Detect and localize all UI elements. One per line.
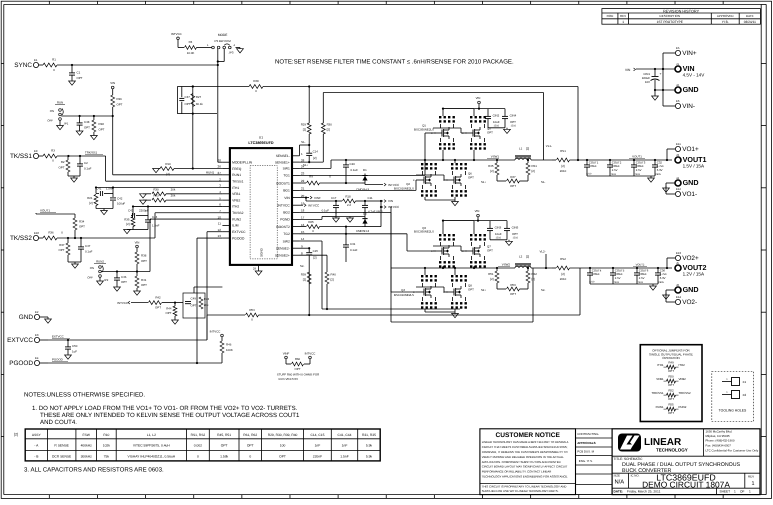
svg-text:R35: R35 bbox=[124, 218, 130, 222]
diode D2 CMDSH-3 bbox=[364, 217, 366, 227]
svg-text:C14, C15: C14, C15 bbox=[310, 433, 324, 437]
svg-text:1uF: 1uF bbox=[72, 350, 77, 354]
svg-text:R41: R41 bbox=[141, 278, 147, 282]
svg-text:VL2-: VL2- bbox=[540, 250, 546, 254]
capacitor C47 0.1uF bbox=[80, 238, 82, 247]
svg-text:400kHz: 400kHz bbox=[81, 444, 93, 448]
terminal J2 GND bbox=[675, 87, 681, 93]
svg-text:OPT: OPT bbox=[668, 397, 674, 401]
svg-text:OF: OF bbox=[740, 490, 744, 494]
svg-text:R10: R10 bbox=[165, 162, 171, 166]
wire Q1 Q5 drain bbox=[442, 109, 444, 116]
svg-text:1210: 1210 bbox=[589, 281, 595, 284]
svg-text:[2]: [2] bbox=[331, 278, 334, 282]
IC pin 12 EXTVCC bbox=[222, 231, 230, 233]
svg-text:R37: R37 bbox=[59, 243, 65, 247]
svg-text:C42: C42 bbox=[117, 197, 123, 201]
resistor R38 OPT bbox=[135, 252, 139, 264]
svg-text:J2: J2 bbox=[676, 83, 679, 87]
svg-text:BG2: BG2 bbox=[283, 211, 290, 215]
wire VSW2 bbox=[391, 267, 515, 269]
wire TG1 net bbox=[300, 174, 426, 176]
svg-text:1: 1 bbox=[622, 20, 624, 24]
svg-text:RUN2: RUN2 bbox=[96, 260, 104, 264]
svg-text:C41: C41 bbox=[96, 187, 102, 191]
svg-text:ITH1: ITH1 bbox=[232, 186, 239, 190]
wire VSW1 bbox=[331, 159, 515, 161]
terminal J1 VIN bbox=[675, 66, 681, 72]
svg-text:VINF: VINF bbox=[283, 352, 290, 356]
terminal E6 VIN- bbox=[675, 103, 680, 108]
svg-text:OPT: OPT bbox=[77, 76, 83, 80]
resistor R39 [2] bbox=[307, 272, 311, 284]
svg-text:CIN3: CIN3 bbox=[495, 225, 502, 229]
ground at J6 bbox=[665, 293, 667, 295]
svg-text:VFB2: VFB2 bbox=[679, 377, 687, 381]
wire PGND pin bbox=[300, 218, 323, 220]
capacitor COUT1 100uF bbox=[586, 159, 588, 161]
svg-text:100uF: 100uF bbox=[117, 202, 125, 206]
IC pin 10 RUN2 bbox=[222, 218, 230, 220]
svg-text:2010: 2010 bbox=[560, 169, 567, 173]
svg-text:OPT: OPT bbox=[84, 126, 90, 130]
svg-text:75k: 75k bbox=[104, 455, 110, 459]
svg-text:APPROVED: APPROVED bbox=[717, 14, 735, 18]
svg-text:OPT: OPT bbox=[510, 120, 516, 124]
svg-text:INTVCC: INTVCC bbox=[308, 203, 320, 207]
svg-text:VIN-: VIN- bbox=[682, 103, 695, 110]
resistor R33 20k bbox=[142, 199, 144, 201]
svg-text:E12: E12 bbox=[676, 187, 681, 191]
svg-text:0805: 0805 bbox=[656, 173, 662, 176]
wire VIN- to E6 bbox=[663, 105, 675, 107]
svg-text:1nF: 1nF bbox=[315, 444, 321, 448]
svg-text:OPT: OPT bbox=[79, 225, 85, 229]
svg-text:E5: E5 bbox=[676, 46, 680, 50]
svg-text:E11: E11 bbox=[676, 142, 681, 146]
svg-text:EXTVCC: EXTVCC bbox=[232, 230, 246, 234]
svg-text:R27: R27 bbox=[196, 95, 202, 99]
svg-text:PCB DUS. M: PCB DUS. M bbox=[577, 449, 594, 453]
resistor R25 0 bbox=[300, 226, 307, 228]
svg-text:INTVCC: INTVCC bbox=[305, 352, 316, 356]
svg-text:S2-: S2- bbox=[300, 264, 304, 268]
svg-text:[2]: [2] bbox=[89, 201, 92, 205]
svg-text:J6: J6 bbox=[676, 283, 679, 287]
IC pin 16 BOOST2 bbox=[292, 226, 300, 228]
svg-text:VOUT1: VOUT1 bbox=[632, 155, 642, 159]
svg-text:C47: C47 bbox=[85, 244, 91, 248]
svg-text:VOUT2: VOUT2 bbox=[636, 264, 645, 267]
resistor R41 OPT bbox=[136, 272, 138, 277]
svg-text:3. ALL CAPACITORS AND RESISTO: 3. ALL CAPACITORS AND RESISTORS ARE 0603… bbox=[24, 467, 164, 474]
resistor R18 2.2 bbox=[343, 199, 356, 203]
svg-text:1630 McCarthy Blvd.: 1630 McCarthy Blvd. bbox=[706, 430, 733, 434]
IC pin 20 VIN bbox=[292, 197, 300, 199]
svg-text:0.002: 0.002 bbox=[194, 444, 202, 448]
svg-text:REV: REV bbox=[620, 14, 626, 18]
svg-text:CMDSH-3: CMDSH-3 bbox=[356, 229, 370, 233]
svg-text:GND: GND bbox=[683, 178, 699, 187]
svg-text:10uF: 10uF bbox=[493, 120, 500, 124]
svg-text:C11: C11 bbox=[368, 196, 373, 200]
svg-text:R40: R40 bbox=[331, 273, 337, 277]
svg-text:1: 1 bbox=[749, 490, 751, 494]
svg-text:R39: R39 bbox=[301, 273, 307, 277]
svg-text:C50: C50 bbox=[72, 344, 78, 348]
svg-text:VIN: VIN bbox=[476, 96, 481, 100]
svg-text:INTVCC: INTVCC bbox=[388, 205, 400, 209]
resistor R30 20k bbox=[142, 193, 144, 195]
svg-text:OFF: OFF bbox=[47, 119, 53, 123]
capacitor COUT4 100uF bbox=[589, 267, 591, 269]
svg-text:20k: 20k bbox=[171, 194, 176, 198]
resistor R62 [2] bbox=[527, 268, 529, 271]
svg-text:SENSE1+: SENSE1+ bbox=[275, 160, 290, 164]
svg-text:S2-: S2- bbox=[541, 288, 545, 292]
IC pin 14 SW2 bbox=[292, 240, 300, 242]
svg-text:INTVCC: INTVCC bbox=[117, 301, 128, 305]
svg-text:R38: R38 bbox=[141, 254, 147, 258]
svg-text:0805: 0805 bbox=[659, 281, 665, 284]
capacitor C1 OPT bbox=[71, 65, 73, 73]
svg-text:OPT: OPT bbox=[141, 259, 147, 263]
svg-text:R61, R62: R61, R62 bbox=[243, 433, 257, 437]
transistor Q5 OPT bbox=[470, 116, 472, 118]
transistor Q7 OPT bbox=[470, 234, 472, 236]
svg-text:ON: ON bbox=[50, 109, 54, 113]
terminal E4 PGOOD bbox=[34, 360, 39, 365]
terminal J5 VOUT2 bbox=[675, 265, 681, 271]
resistor R42 OPT bbox=[131, 302, 148, 304]
svg-text:OPT: OPT bbox=[468, 176, 474, 180]
svg-text:220nF: 220nF bbox=[313, 455, 322, 459]
svg-text:R31, R35: R31, R35 bbox=[362, 433, 376, 437]
svg-text:1nF: 1nF bbox=[342, 444, 348, 448]
terminal E3 EXTVCC bbox=[34, 337, 39, 342]
svg-text:OPT: OPT bbox=[295, 367, 301, 371]
svg-text:OPT: OPT bbox=[510, 292, 516, 296]
svg-text:S1-: S1- bbox=[541, 180, 545, 184]
svg-text:D1: D1 bbox=[363, 168, 367, 172]
IC pin 2 TK/SS1 bbox=[222, 180, 230, 182]
svg-text:ROD: ROD bbox=[607, 14, 615, 18]
IC pin 4 VFB1 bbox=[222, 193, 230, 195]
tooling hole X2 bbox=[722, 394, 732, 396]
svg-text:EXTVCC: EXTVCC bbox=[7, 337, 33, 344]
svg-text:DATE:: DATE: bbox=[614, 490, 624, 494]
svg-text:ENG. YI S.: ENG. YI S. bbox=[579, 459, 593, 463]
svg-text:E9: E9 bbox=[34, 149, 38, 153]
svg-text:OPT: OPT bbox=[668, 369, 674, 373]
svg-text:VIN+: VIN+ bbox=[682, 50, 697, 57]
wire PGOOD bbox=[40, 362, 48, 364]
svg-text:OPT: OPT bbox=[99, 128, 105, 132]
svg-text:C49: C49 bbox=[191, 297, 197, 301]
capacitor C20 0.1uF bbox=[345, 160, 347, 165]
svg-text:1.58k: 1.58k bbox=[220, 455, 228, 459]
terminal E1 SYNC bbox=[33, 62, 38, 67]
svg-text:S1+: S1+ bbox=[481, 180, 486, 184]
IC pin 11 ILIM bbox=[222, 224, 230, 226]
svg-text:TG2: TG2 bbox=[283, 232, 290, 236]
terminal E2 GND bbox=[34, 314, 39, 319]
svg-text:J4: J4 bbox=[676, 176, 679, 180]
svg-text:R3: R3 bbox=[51, 149, 55, 153]
svg-text:THESE ARE ONLY INTENDED TO KEL: THESE ARE ONLY INTENDED TO KELVIN SENSE … bbox=[40, 412, 300, 419]
svg-text:TK/SS1: TK/SS1 bbox=[232, 179, 244, 183]
svg-text:20k: 20k bbox=[171, 187, 176, 191]
svg-text:100K: 100K bbox=[226, 348, 233, 352]
IC pin 1 SENSE1- bbox=[292, 155, 300, 157]
ground at JP3 bbox=[236, 47, 241, 49]
assembly options table bbox=[25, 429, 380, 461]
svg-text:OPT: OPT bbox=[166, 311, 172, 315]
transistor Q8 OPT bbox=[451, 275, 453, 277]
svg-text:BSC050NE2LS: BSC050NE2LS bbox=[414, 128, 434, 132]
capacitor CIN4 OPT 1210 bbox=[488, 108, 505, 110]
svg-text:VIN: VIN bbox=[135, 241, 140, 245]
wire gate link ch1 bbox=[433, 132, 436, 134]
title block bbox=[612, 429, 760, 495]
svg-text:J1: J1 bbox=[676, 62, 679, 66]
svg-text:C48: C48 bbox=[84, 120, 90, 124]
svg-text:Q2: Q2 bbox=[406, 182, 410, 186]
svg-text:BOOST1: BOOST1 bbox=[276, 181, 290, 185]
svg-text:APPROVALS: APPROVALS bbox=[577, 441, 595, 445]
IC pin 28 MODE/PLLIN bbox=[222, 161, 230, 163]
svg-text:VSW1: VSW1 bbox=[491, 155, 500, 159]
svg-text:SUPPLIED FOR USE WITH LINEAR T: SUPPLIED FOR USE WITH LINEAR TECHNOLOGY … bbox=[482, 489, 559, 493]
wire lower run2 bbox=[391, 321, 533, 323]
ground C17 C11 bbox=[335, 210, 337, 217]
approvals column bbox=[576, 429, 613, 495]
terminal E14 VO2- bbox=[675, 299, 680, 304]
svg-text:1210: 1210 bbox=[494, 125, 500, 128]
svg-text:BG1: BG1 bbox=[283, 189, 290, 193]
terminal E13 VO2+ bbox=[675, 255, 680, 260]
svg-text:0: 0 bbox=[249, 455, 251, 459]
resistor R28 OPT bbox=[93, 116, 95, 120]
svg-text:R25: R25 bbox=[308, 220, 314, 224]
svg-text:DATE: DATE bbox=[746, 14, 754, 18]
svg-text:PGOOD: PGOOD bbox=[52, 358, 63, 362]
svg-text:TRK/SS1: TRK/SS1 bbox=[85, 151, 97, 155]
svg-text:C2: C2 bbox=[84, 161, 88, 165]
svg-text:R52: R52 bbox=[668, 388, 674, 392]
resistor RS2 [2] 2010 bbox=[552, 267, 556, 269]
svg-text:E2: E2 bbox=[35, 310, 39, 314]
svg-text:JP1: JP1 bbox=[64, 122, 69, 126]
svg-text:2.5V: 2.5V bbox=[615, 276, 621, 280]
svg-text:Fax: (408)434-0507: Fax: (408)434-0507 bbox=[706, 444, 732, 448]
wire TK/SS1 bbox=[39, 155, 43, 157]
capacitor C36 4.7uF bbox=[657, 267, 659, 269]
svg-text:J3: J3 bbox=[676, 153, 679, 157]
svg-text:PGND: PGND bbox=[280, 218, 290, 222]
svg-text:R2: R2 bbox=[61, 160, 65, 164]
wire VO2+ sense bbox=[667, 257, 675, 259]
svg-text:C15: C15 bbox=[313, 249, 319, 253]
svg-text:R18: R18 bbox=[345, 194, 351, 198]
svg-text:RUN1: RUN1 bbox=[656, 405, 664, 409]
svg-text:DCR SENSE: DCR SENSE bbox=[52, 455, 72, 459]
svg-text:OPT: OPT bbox=[468, 288, 474, 292]
svg-text:C14: C14 bbox=[313, 150, 319, 154]
wire TG2 net bbox=[300, 233, 341, 235]
svg-text:[2]: [2] bbox=[561, 272, 564, 276]
transistor Q4 BSC010NE2LS bbox=[421, 275, 423, 277]
svg-text:R1: R1 bbox=[52, 58, 56, 62]
svg-text:CUSTOMER NOTICE: CUSTOMER NOTICE bbox=[496, 432, 561, 439]
svg-text:R29: R29 bbox=[301, 123, 307, 127]
svg-text:LINEAR: LINEAR bbox=[644, 437, 682, 448]
ground below JP1 bbox=[59, 120, 61, 125]
wire gate link ch2 low bbox=[444, 291, 448, 293]
svg-text:C41, C44: C41, C44 bbox=[338, 433, 352, 437]
svg-text:R53: R53 bbox=[510, 283, 516, 287]
svg-text:VINF: VINF bbox=[314, 196, 321, 200]
svg-text:2010: 2010 bbox=[560, 277, 567, 281]
svg-text:NOTE:SET RSENSE FILTER TIME CO: NOTE:SET RSENSE FILTER TIME CONSTANT ≤ .… bbox=[275, 59, 514, 66]
svg-text:29: 29 bbox=[253, 267, 257, 271]
svg-text:Milpitas, CA 95035: Milpitas, CA 95035 bbox=[706, 434, 730, 438]
svg-text:R30: R30 bbox=[153, 187, 159, 191]
svg-text:DEMO CIRCUIT 1807A: DEMO CIRCUIT 1807A bbox=[642, 480, 730, 490]
svg-text:OPT: OPT bbox=[487, 131, 493, 135]
svg-text:JP2: JP2 bbox=[104, 278, 109, 282]
capacitor C32 4.7uF bbox=[654, 159, 656, 161]
ground below R35 bbox=[132, 227, 134, 230]
IC pin 15 TG2 bbox=[292, 233, 300, 235]
optional jumpers box bbox=[640, 345, 702, 422]
IC pin 18 BG2 bbox=[292, 211, 300, 213]
svg-text:X2: X2 bbox=[743, 393, 747, 397]
resistor R51 [2] bbox=[496, 268, 498, 271]
IC pin 6 ITH2 bbox=[222, 205, 230, 207]
svg-text:OPT: OPT bbox=[247, 444, 254, 448]
svg-text:EXTVCC: EXTVCC bbox=[52, 335, 64, 339]
svg-text:1210: 1210 bbox=[513, 237, 519, 240]
capacitor C44 1.5nF bbox=[147, 216, 149, 220]
svg-text:PS BW CCM: PS BW CCM bbox=[215, 39, 232, 43]
ground below CIN4 bbox=[488, 127, 505, 129]
svg-text:MODE/PLLIN: MODE/PLLIN bbox=[232, 161, 253, 165]
svg-text:R48: R48 bbox=[253, 79, 259, 83]
resistor R48 0 bbox=[249, 85, 263, 89]
ground at E2 bbox=[40, 316, 48, 318]
svg-text:E4: E4 bbox=[35, 356, 39, 360]
wire SENSE2+ row bbox=[300, 254, 328, 256]
svg-text:R SENSE: R SENSE bbox=[54, 444, 69, 448]
svg-text:0.1uF: 0.1uF bbox=[322, 209, 330, 213]
svg-text:SW2: SW2 bbox=[283, 239, 290, 243]
svg-text:OFF: OFF bbox=[87, 276, 93, 280]
svg-text:SENSE2+: SENSE2+ bbox=[275, 254, 290, 258]
svg-text:[2]: [2] bbox=[490, 169, 493, 173]
tooling holes box bbox=[712, 372, 754, 422]
svg-text:OPT: OPT bbox=[121, 280, 127, 284]
svg-text:CIRCUIT THAT MEETS CUSTOMER-SU: CIRCUIT THAT MEETS CUSTOMER-SUPPLIED SPE… bbox=[482, 445, 568, 449]
svg-text:VSW2: VSW2 bbox=[502, 263, 511, 267]
resistor R9 0 boost bbox=[300, 182, 307, 184]
inductor L2 [2] bbox=[515, 266, 531, 268]
svg-text:YI B.: YI B. bbox=[722, 20, 729, 24]
wire VOUT1 feedback vertical bbox=[577, 87, 579, 161]
wire Q3 Q7 drain bbox=[442, 221, 444, 234]
svg-text:MODE: MODE bbox=[218, 33, 228, 37]
capacitor CIN3 10uF 1210 bbox=[489, 221, 491, 228]
svg-text:R34: R34 bbox=[79, 220, 85, 224]
resistor R30 [2] bbox=[322, 93, 324, 124]
svg-text:R42: R42 bbox=[155, 296, 161, 300]
svg-text:RUN1: RUN1 bbox=[206, 170, 214, 174]
svg-text:C17: C17 bbox=[331, 196, 337, 200]
svg-text:[2]: [2] bbox=[313, 255, 316, 259]
resistor R2 OPT bbox=[67, 156, 69, 160]
resistor RS1 [2] 2010 bbox=[552, 159, 556, 161]
svg-text:0.1uF: 0.1uF bbox=[351, 168, 359, 172]
svg-text:OPT: OPT bbox=[512, 232, 518, 236]
wire VIN filter row bbox=[305, 198, 307, 201]
wire TK/SS2 bbox=[39, 237, 43, 239]
IC pin 5 VFB2 bbox=[222, 199, 230, 201]
svg-text:R45, R51: R45, R51 bbox=[217, 433, 231, 437]
svg-text:ITH2: ITH2 bbox=[679, 363, 686, 367]
svg-text:10uF: 10uF bbox=[495, 232, 502, 236]
svg-text:BOOST2: BOOST2 bbox=[276, 225, 290, 229]
svg-text:L1, L2: L1, L2 bbox=[147, 433, 156, 437]
svg-text:TOOLING HOLES: TOOLING HOLES bbox=[719, 409, 747, 413]
svg-text:OPT: OPT bbox=[59, 248, 65, 252]
capacitor COUT3 330uF bbox=[633, 159, 635, 161]
svg-text:C37: C37 bbox=[185, 95, 191, 99]
svg-text:VFB1: VFB1 bbox=[232, 192, 240, 196]
svg-text:[2]: [2] bbox=[526, 255, 529, 259]
resistor R34 OPT bbox=[74, 214, 76, 218]
capacitor C50 1uF bbox=[67, 340, 69, 347]
ground below C1 bbox=[69, 81, 76, 85]
svg-text:TRK/SS1: TRK/SS1 bbox=[651, 391, 663, 395]
svg-text:[2]: [2] bbox=[303, 278, 306, 282]
capacitor C37 OPT + resistor R27 30.1k bbox=[178, 87, 193, 114]
wire Q2 Q6 to VSW1 bbox=[424, 160, 426, 163]
svg-text:4.6V<VIN<5.5V: 4.6V<VIN<5.5V bbox=[278, 377, 298, 381]
svg-text:RUN1: RUN1 bbox=[232, 173, 241, 177]
capacitor C2 0.1uF bbox=[79, 156, 81, 164]
svg-text:FSW: FSW bbox=[83, 433, 91, 437]
svg-text:R51: R51 bbox=[488, 272, 494, 276]
IC pin 7 TK/SS2 bbox=[222, 212, 230, 214]
resistor R53 OPT bbox=[497, 288, 506, 290]
wire main top bus FB1 bbox=[193, 86, 249, 88]
IC pin 13 PGOOD bbox=[222, 237, 230, 239]
svg-text:PERFORMANCE OR RELIABILITY. CO: PERFORMANCE OR RELIABILITY. CONTACT LINE… bbox=[482, 470, 551, 474]
IC pin 27 RUN1 bbox=[222, 174, 230, 176]
svg-text:TG1: TG1 bbox=[283, 174, 290, 178]
svg-text:TITLE: SCHEMATIC: TITLE: SCHEMATIC bbox=[614, 457, 644, 461]
svg-text:R44: R44 bbox=[166, 307, 172, 311]
svg-text:CIRCUIT BOARD LAYOUT MAY SIGNI: CIRCUIT BOARD LAYOUT MAY SIGNIFICANTLY A… bbox=[482, 465, 568, 469]
svg-text:R54: R54 bbox=[249, 308, 255, 312]
svg-text:1.5V / 15A: 1.5V / 15A bbox=[683, 164, 705, 169]
svg-text:J5: J5 bbox=[676, 261, 679, 265]
svg-text:OPT: OPT bbox=[221, 444, 228, 448]
svg-text:7343: 7343 bbox=[635, 173, 641, 176]
svg-text:1: 1 bbox=[734, 490, 736, 494]
resistor R29 [2] bbox=[308, 87, 310, 124]
svg-text:LTC3869EUFD: LTC3869EUFD bbox=[248, 141, 273, 145]
